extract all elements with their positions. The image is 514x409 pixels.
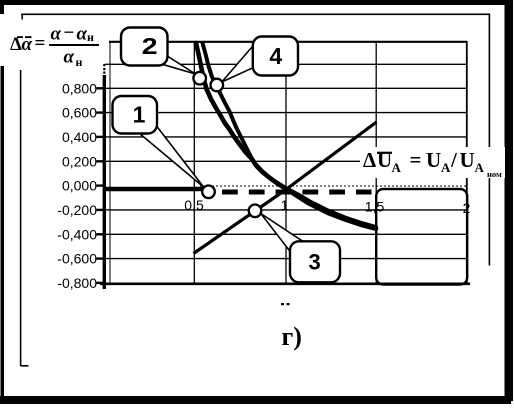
y axis faded dotted top bbox=[103, 64, 105, 66]
svg-text:-0,400: -0,400 bbox=[57, 226, 97, 242]
callout 1 box bbox=[113, 96, 158, 134]
series dashed line bbox=[222, 190, 372, 195]
svg-text:-0,800: -0,800 bbox=[57, 275, 97, 291]
horizontal gridline y=0.4 bbox=[105, 136, 467, 138]
svg-text:0,5: 0,5 bbox=[184, 197, 204, 213]
inner border top bbox=[21, 14, 490, 16]
vertical gridline x=1.0 bbox=[285, 41, 287, 284]
svg-text:1: 1 bbox=[281, 197, 289, 213]
svg-text:1: 1 bbox=[133, 102, 146, 128]
svg-text:2: 2 bbox=[142, 33, 158, 59]
marker circle 3 bbox=[249, 205, 262, 218]
outer scan frame left upper stub bbox=[0, 0, 4, 14]
svg-text:−: − bbox=[64, 23, 75, 44]
callout 4 box bbox=[253, 37, 298, 76]
svg-text:U: U bbox=[377, 148, 392, 172]
outer scan frame bottom bbox=[0, 396, 511, 404]
svg-text:0,400: 0,400 bbox=[62, 129, 97, 145]
horizontal gridline y=0.8 bbox=[105, 87, 467, 89]
svg-text:ном: ном bbox=[487, 169, 502, 179]
formula delta-U right bbox=[363, 148, 502, 180]
horizontal gridline y=-0.4 bbox=[105, 233, 467, 235]
callout 1 pointer bbox=[139, 126, 204, 187]
outer scan frame left bbox=[1, 66, 5, 401]
svg-text:0,200: 0,200 bbox=[62, 153, 97, 169]
fraction bar bbox=[49, 44, 99, 46]
svg-text:1,5: 1,5 bbox=[365, 199, 385, 215]
horizontal gridline y=-0.6 bbox=[105, 258, 467, 260]
inner border right bbox=[489, 14, 491, 266]
overline on U bbox=[377, 152, 392, 154]
svg-text:0,600: 0,600 bbox=[62, 105, 97, 121]
curve series 2 bbox=[196, 43, 376, 229]
svg-text:А: А bbox=[475, 160, 485, 175]
svg-text:U: U bbox=[460, 148, 475, 172]
tilde dashes over alpha bbox=[17, 36, 23, 38]
curve series 4 bbox=[203, 43, 377, 227]
callout 3 box bbox=[290, 241, 340, 282]
plot border bottom bbox=[100, 282, 470, 285]
callout 2 box bbox=[121, 28, 168, 66]
svg-text:0,800: 0,800 bbox=[62, 80, 97, 96]
callout 3 pointer bbox=[261, 214, 303, 253]
svg-text:-0,600: -0,600 bbox=[57, 251, 97, 267]
svg-text:U: U bbox=[426, 148, 441, 172]
svg-text:-0,200: -0,200 bbox=[57, 202, 97, 218]
callout 4 pointer bbox=[222, 44, 255, 82]
svg-text:α: α bbox=[77, 24, 88, 45]
series 1 thick zero line bbox=[104, 187, 205, 191]
outer scan frame top bbox=[0, 0, 512, 5]
rising line series 3 bbox=[194, 122, 377, 254]
formula delta-U right white backing bbox=[360, 147, 505, 178]
inner border left bbox=[20, 70, 22, 366]
highlight box x 1.5 to 2 bbox=[376, 189, 467, 285]
y axis line bbox=[103, 75, 106, 289]
horizontal gridline y=-0.2 bbox=[105, 209, 467, 211]
marker circle 4 bbox=[211, 79, 224, 92]
horizontal gridline y=1.0 bbox=[105, 63, 467, 65]
formula delta-alpha top-left bbox=[10, 23, 94, 70]
horizontal gridline y=0.2 bbox=[105, 160, 467, 162]
horizontal gridline y=0 dotted bbox=[200, 185, 467, 187]
horizontal gridline y=0.6 bbox=[105, 112, 467, 114]
x axis labels bbox=[184, 197, 470, 216]
caption dots bbox=[281, 303, 284, 305]
svg-text:Δ: Δ bbox=[363, 148, 376, 172]
inner border left foot bbox=[21, 365, 29, 367]
y axis labels bbox=[57, 80, 97, 291]
vertical gridline x=0.5 bbox=[193, 41, 195, 284]
svg-text:/: / bbox=[450, 148, 458, 172]
plot border left thin bbox=[109, 41, 111, 284]
svg-text:А: А bbox=[392, 160, 402, 175]
svg-text:α: α bbox=[64, 47, 75, 68]
plot border right bbox=[466, 41, 468, 284]
svg-text:=: = bbox=[35, 33, 46, 54]
outer scan frame right bbox=[505, 0, 514, 401]
y axis ticks bbox=[97, 88, 105, 283]
svg-text:α: α bbox=[51, 24, 62, 45]
vertical gridline x=1.5 bbox=[375, 41, 377, 284]
inner border top-left stub bbox=[22, 14, 24, 20]
svg-text:3: 3 bbox=[308, 249, 320, 274]
svg-text:А: А bbox=[441, 160, 451, 175]
svg-text:г): г) bbox=[282, 322, 302, 351]
marker circle 2 bbox=[193, 72, 206, 85]
svg-text:н: н bbox=[76, 55, 83, 69]
plot border top bbox=[109, 41, 467, 43]
callout 2 pointer bbox=[164, 56, 195, 75]
marker circle 1 bbox=[202, 186, 215, 199]
svg-text:0,000: 0,000 bbox=[62, 178, 97, 194]
svg-text:4: 4 bbox=[269, 43, 282, 69]
svg-text:н: н bbox=[87, 30, 94, 44]
svg-text:=: = bbox=[410, 148, 422, 172]
